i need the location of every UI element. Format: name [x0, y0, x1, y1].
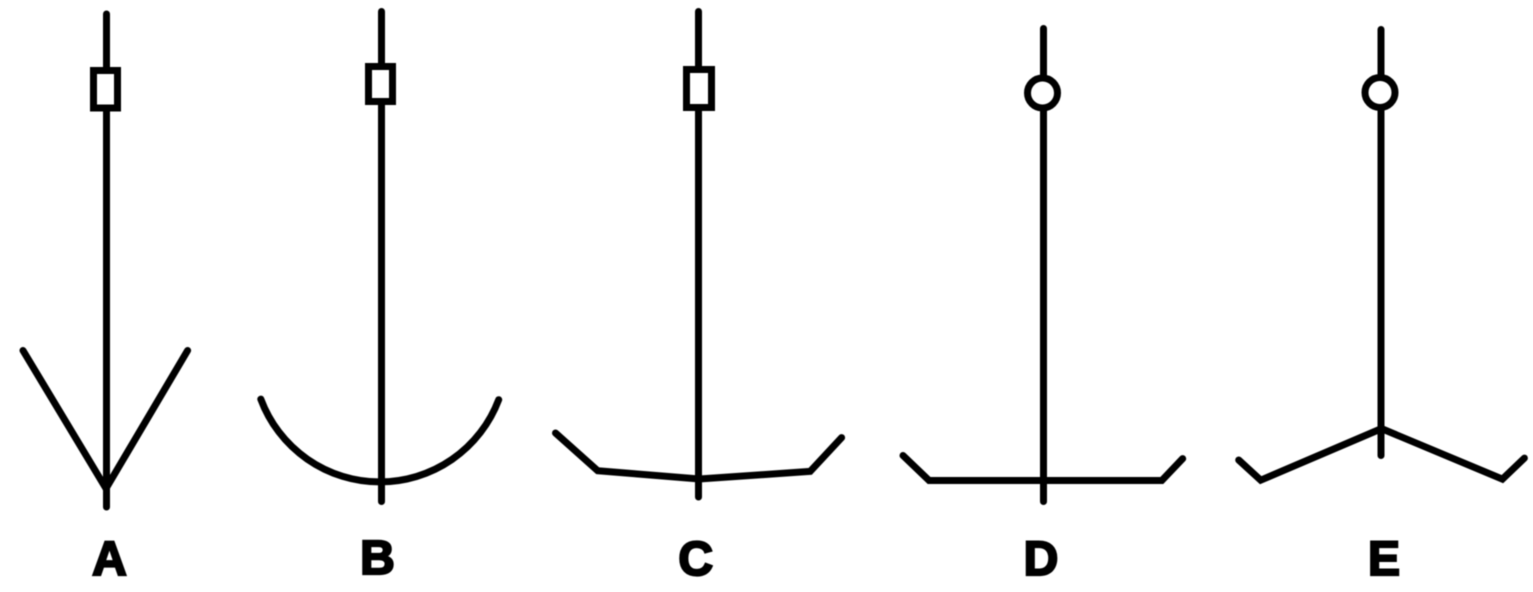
symbol D shank wire — [1040, 29, 1047, 502]
symbol A shackle square — [94, 71, 118, 109]
svg-text:E: E — [1368, 533, 1400, 586]
symbol A V-arm right — [106, 351, 188, 489]
symbol D shackle ring — [1028, 78, 1058, 108]
symbol B shackle square — [369, 67, 393, 102]
symbol E shank wire — [1378, 30, 1385, 456]
svg-text:C: C — [678, 533, 713, 586]
symbol C shank wire — [695, 12, 702, 498]
symbol D stock bar — [903, 456, 1183, 481]
svg-text:A: A — [92, 533, 127, 586]
symbol E tent fluke — [1239, 429, 1525, 481]
symbol C shackle square — [687, 70, 712, 108]
symbol C fluke polyline — [556, 433, 842, 479]
symbol B arc fluke — [261, 399, 499, 482]
symbol A V-arm left — [23, 351, 106, 489]
svg-text:B: B — [360, 532, 395, 585]
svg-text:D: D — [1024, 533, 1059, 586]
symbol A shank wire — [103, 14, 110, 507]
symbol E shackle ring — [1365, 78, 1395, 108]
symbol B shank wire — [378, 12, 385, 502]
